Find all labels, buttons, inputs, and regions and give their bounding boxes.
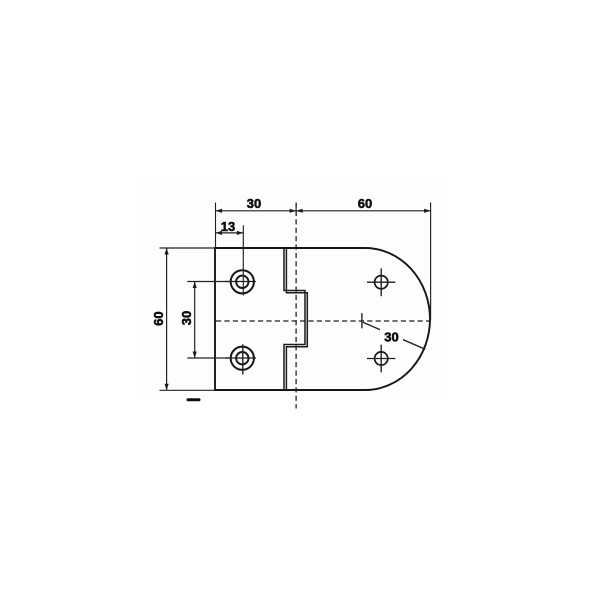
hole lower-left crosshair <box>225 357 256 359</box>
hole upper-left crosshair <box>225 281 256 283</box>
hole lower-right circle <box>375 352 388 365</box>
hole upper-left inner circle <box>236 276 248 288</box>
svg-text:60: 60 <box>151 311 166 325</box>
left dim 60: extension top <box>160 247 216 249</box>
stray bold dash artifact <box>187 398 201 401</box>
svg-text:30: 30 <box>384 330 398 345</box>
hole upper-right crosshair <box>367 281 395 283</box>
top dimension: extension line right <box>430 203 432 321</box>
hole lower-left inner circle <box>236 352 248 364</box>
radius leader line <box>363 322 425 349</box>
arc center mark <box>361 313 363 328</box>
hole upper-left outer circle <box>231 270 254 293</box>
leaf edge stepped line (outer) <box>284 248 305 390</box>
arrows of top dim <box>216 209 223 213</box>
hole upper-right circle <box>375 276 388 289</box>
svg-text:30: 30 <box>247 196 261 211</box>
hole lower-right crosshair <box>367 358 395 360</box>
vertical centerline (dashed) <box>295 203 297 409</box>
svg-text:13: 13 <box>221 219 235 234</box>
left dim 60: dimension line <box>166 248 168 390</box>
top dimension: tick at centerline <box>295 203 297 217</box>
hinge plate outline <box>215 248 430 390</box>
label 30 (radius) with white backing <box>380 329 403 344</box>
horizontal centerline (dashed) <box>216 320 430 322</box>
top dimension: extension line left <box>215 203 217 249</box>
left dim 60: extension bottom <box>160 389 216 391</box>
dim 13: right extension line down to hole <box>242 225 244 295</box>
left dim 30: extension lines <box>187 281 230 283</box>
svg-text:60: 60 <box>358 196 372 211</box>
left dim 30: dimension line <box>194 282 196 359</box>
svg-text:30: 30 <box>179 311 194 325</box>
dim 13: line <box>216 232 244 234</box>
top dimension line <box>216 210 431 212</box>
leaf edge stepped line (inner parallel) <box>286 248 307 390</box>
hole lower-left outer circle <box>231 347 254 370</box>
